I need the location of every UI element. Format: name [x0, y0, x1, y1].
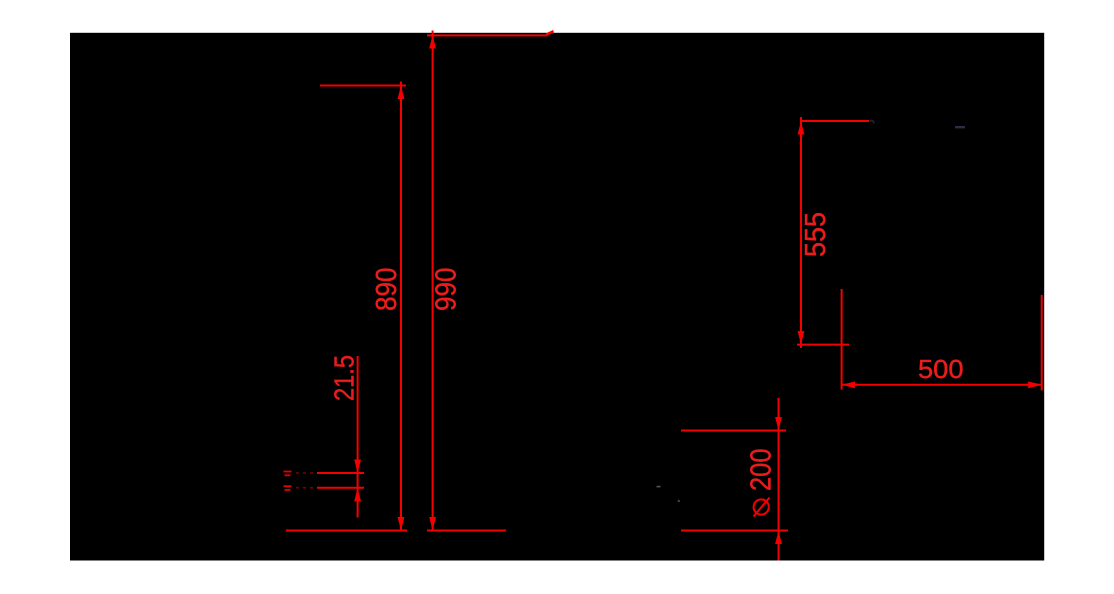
svg-text:200: 200: [746, 449, 778, 492]
svg-text:890: 890: [371, 268, 403, 312]
svg-text:555: 555: [800, 212, 832, 257]
svg-text:990: 990: [431, 268, 463, 312]
svg-text:21.5: 21.5: [329, 355, 360, 401]
svg-text:500: 500: [918, 354, 964, 384]
